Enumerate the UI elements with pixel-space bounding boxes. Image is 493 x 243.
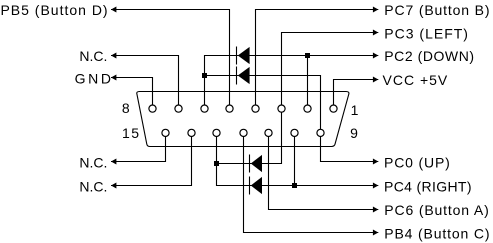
svg-text:VCC +5V: VCC +5V [383, 72, 449, 88]
svg-text:PC6 (Button A): PC6 (Button A) [384, 202, 489, 218]
svg-text:8: 8 [122, 100, 130, 116]
svg-text:15: 15 [122, 125, 141, 141]
svg-text:9: 9 [350, 125, 358, 141]
svg-text:GND: GND [75, 70, 114, 86]
svg-text:N.C.: N.C. [79, 154, 107, 170]
svg-text:1: 1 [351, 102, 359, 118]
svg-text:PC7 (Button B): PC7 (Button B) [384, 2, 490, 18]
svg-text:PC3 (LEFT): PC3 (LEFT) [384, 26, 469, 42]
svg-text:PC4 (RIGHT): PC4 (RIGHT) [384, 178, 472, 194]
svg-text:PB5 (Button D): PB5 (Button D) [0, 2, 108, 18]
svg-text:N.C.: N.C. [79, 48, 107, 64]
svg-text:PC0 (UP): PC0 (UP) [384, 154, 451, 170]
svg-text:N.C.: N.C. [79, 178, 107, 194]
svg-text:PC2 (DOWN): PC2 (DOWN) [384, 48, 474, 64]
svg-text:PB4 (Button C): PB4 (Button C) [384, 226, 490, 242]
